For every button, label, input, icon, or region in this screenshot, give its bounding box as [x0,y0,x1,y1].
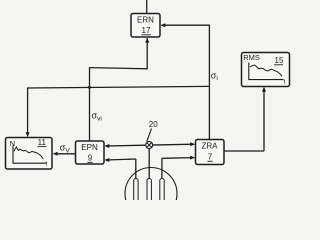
wire lower left electrode to EPN with arrowhead [104,158,136,179]
wire sigma_vi vertical into EPN top [89,67,91,141]
block EPN 9 [76,141,105,164]
axes [249,63,284,80]
svg-text:7: 7 [208,153,213,162]
svg-text:ERN: ERN [137,16,154,25]
wire sigma_i vertical (ZRA top to top corner) [208,25,210,139]
wire ERN top output to image edge [146,0,148,14]
axes [13,146,47,164]
mixer 20 (circle with X) [146,142,153,149]
block N 11 (noise display) [6,138,53,170]
block RMS 15 [242,53,290,87]
wire sigma_i horizontal into ERN right with arrowhead [160,23,210,27]
svg-text:15: 15 [275,56,284,65]
electrode left [134,179,138,202]
junction dot on bus [88,86,91,89]
wire left branch down into N box with arrowhead [26,87,30,137]
curve [250,65,282,76]
block ERN 17 [131,14,160,38]
svg-text:N: N [10,139,15,148]
electrode middle [147,179,151,203]
wire sigma_v from EPN left into N right with arrowhead [53,152,76,156]
wire mixer down to middle electrode [148,148,150,179]
wire ZRA right to RMS bottom with arrowhead [224,87,266,151]
vessel (electrochemical cell, clipped circle) [125,168,177,220]
wire lower right electrode to ZRA with arrowhead [162,156,195,179]
svg-text:9: 9 [88,154,93,163]
svg-text:RMS: RMS [243,53,260,62]
svg-text:t: t [46,160,48,167]
curve [14,147,43,159]
background paper [0,0,300,200]
svg-text:EPN: EPN [81,143,98,152]
svg-text:t: t [284,79,286,86]
label 20 with leader line [147,120,158,142]
block ZRA 7 [196,140,225,165]
svg-text:20: 20 [149,120,158,129]
electrode right [160,179,164,203]
svg-text:11: 11 [38,138,47,147]
wire jog up to ERN bottom with arrowhead [90,38,150,70]
wire long horizontal bus [28,86,210,88]
svg-text:ZRA: ZRA [202,142,219,151]
svg-text:17: 17 [142,26,151,35]
wire mixer line EPN to ZRA through mixer, arrowheads both ends [104,142,195,148]
